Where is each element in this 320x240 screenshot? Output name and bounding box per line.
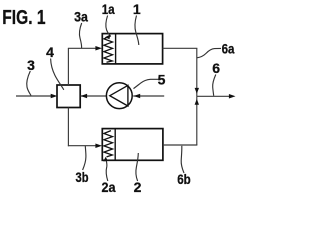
wire: stub right of pump 5 (133, 95, 164, 97)
svg-text:2: 2 (134, 179, 142, 195)
svg-text:3: 3 (27, 57, 35, 73)
wire: riser from valve 4 down (branch 3b) (67, 108, 69, 147)
heat exchanger 2 body (102, 129, 163, 161)
leader line of label 2 (136, 153, 138, 181)
divider of exchanger element 1a (115, 34, 117, 64)
arrow into pump 5 from right (134, 94, 141, 99)
svg-text:4: 4 (46, 44, 54, 60)
svg-text:2a: 2a (102, 179, 116, 195)
wire: outlet line 6 (197, 95, 230, 97)
pump circle 5 (106, 83, 132, 109)
wire: right riser top 6a (196, 48, 198, 96)
wire: valve 4 to pump 5 (80, 95, 106, 97)
wire: right riser bottom 6b (196, 96, 198, 145)
leader line of label 2a (106, 159, 108, 181)
wire: bottom horizontal to heat exchanger 2 (68, 145, 96, 147)
arrow into valve 4 from left (51, 94, 58, 99)
arrow down toward junction (195, 88, 199, 94)
leader line of label 3b (83, 146, 86, 170)
svg-text:1: 1 (133, 1, 141, 17)
leader line of label 6b (181, 146, 184, 173)
leader line of label 6 (213, 75, 216, 96)
arrow up toward junction (195, 99, 199, 105)
wire: top horizontal to heat exchanger 1 (68, 47, 97, 49)
heat exchanger 1 body (102, 34, 162, 64)
wire: riser from valve 4 up (branch 3a) (67, 48, 69, 85)
svg-text:1a: 1a (102, 1, 115, 17)
valve/splitter box 4 (57, 85, 80, 108)
wire: exchanger 1 outlet to right riser (6a) (163, 47, 198, 49)
leader line of label 4 (51, 59, 64, 90)
svg-text:3a: 3a (74, 9, 88, 25)
wire: exchanger 2 outlet to right riser (6b) (163, 144, 197, 146)
arrow into heat exchanger 1 (95, 46, 102, 51)
zigzag element 1a (104, 36, 113, 63)
zigzag element 2a (104, 131, 113, 157)
svg-text:FIG. 1: FIG. 1 (2, 7, 45, 29)
svg-text:6a: 6a (222, 41, 235, 57)
arrowhead of leader 1a (105, 35, 110, 40)
svg-text:6: 6 (212, 60, 220, 76)
pump triangle rotor (110, 85, 128, 106)
leader line of label 6a (197, 48, 221, 57)
arrow into heat exchanger 2 (95, 143, 102, 148)
arrowhead of leader 2a (103, 157, 108, 162)
leader line of label 5 (134, 79, 159, 88)
arrow outlet 6 (229, 94, 236, 99)
wire: inlet line 3 (16, 95, 52, 97)
svg-text:5: 5 (158, 72, 166, 88)
leader line of label 1 (135, 16, 139, 46)
svg-text:3b: 3b (76, 169, 89, 185)
divider of exchanger element 2a (114, 129, 116, 161)
leader line of label 3 (27, 71, 31, 96)
svg-text:6b: 6b (177, 171, 191, 187)
leader line of label 1a (106, 16, 110, 36)
leader line of label 3a (79, 23, 81, 48)
arrow into valve 4 from right (81, 94, 88, 99)
